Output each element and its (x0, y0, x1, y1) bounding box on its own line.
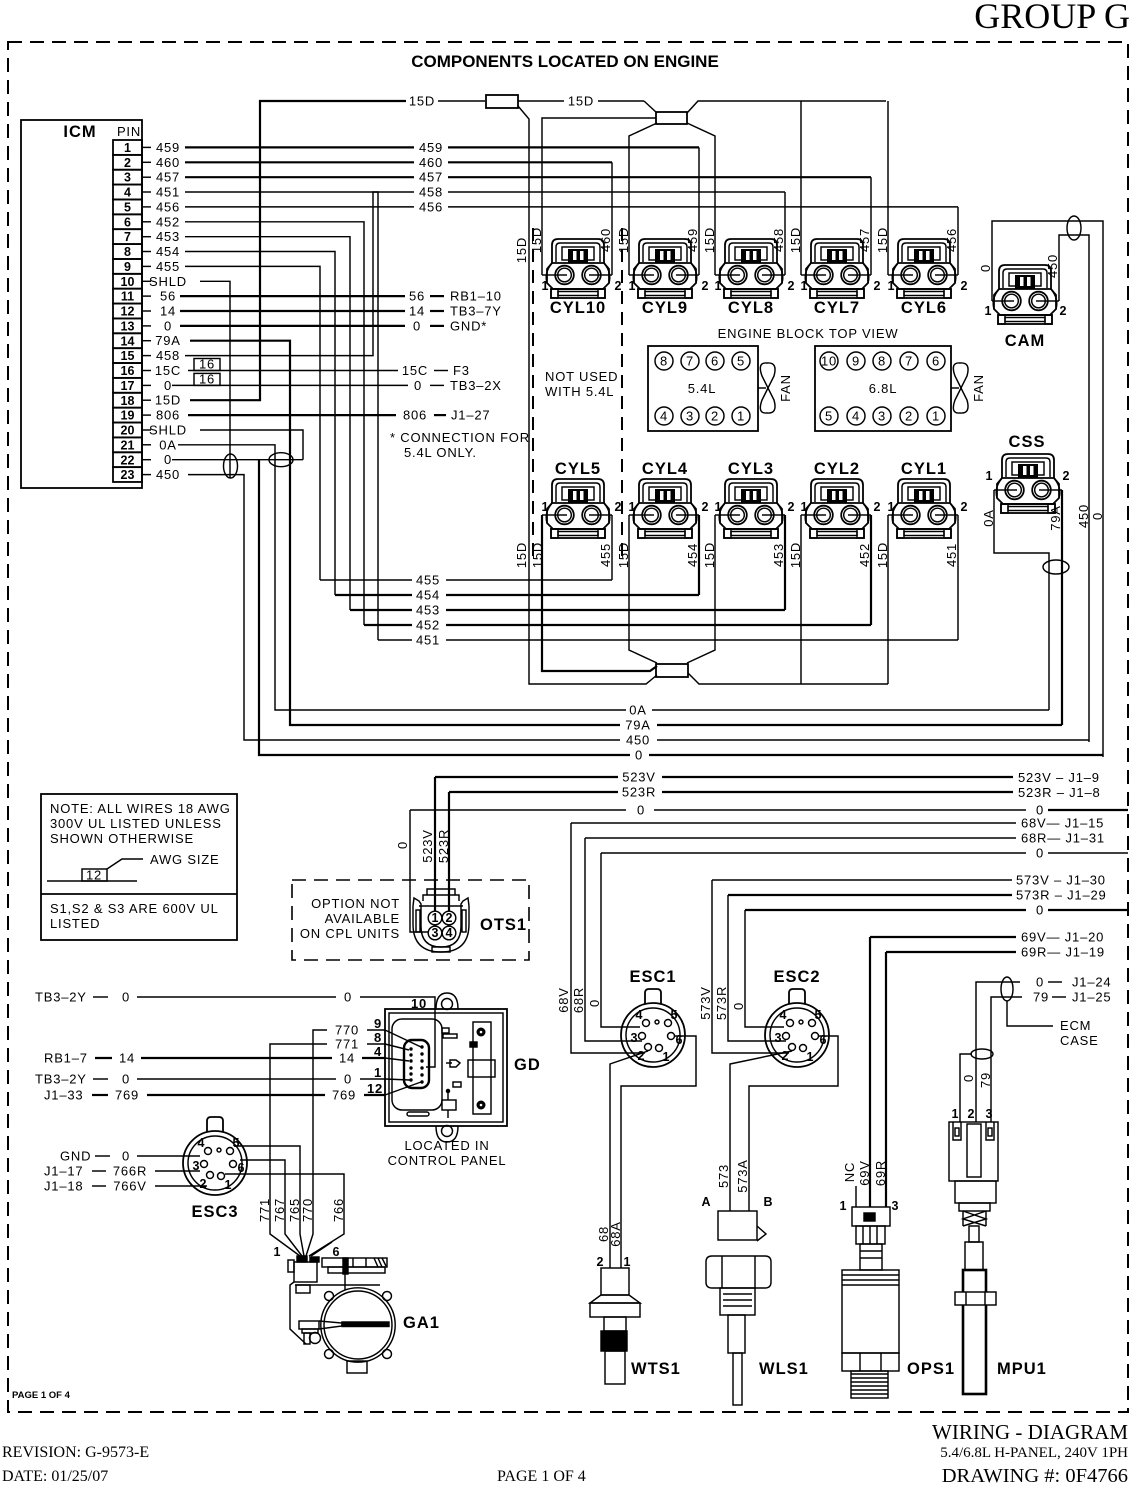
CYL9 pin 2 (689, 274, 699, 276)
wire 15D (ICM pin18) riser to top bus (190, 101, 406, 400)
svg-text:456: 456 (944, 228, 959, 252)
svg-text:1: 1 (432, 911, 439, 925)
ICM pin 18 box (113, 393, 142, 408)
svg-text:15D: 15D (788, 227, 803, 253)
svg-text:CAM: CAM (1005, 332, 1046, 350)
svg-text:5: 5 (737, 354, 745, 369)
svg-text:0: 0 (731, 1002, 746, 1010)
svg-text:CYL5: CYL5 (555, 460, 601, 478)
CYL3 pin 2 (775, 514, 785, 516)
ICM pin 19 box (113, 408, 142, 423)
svg-text:WITH 5.4L: WITH 5.4L (545, 384, 614, 399)
wire 69V to OPS1 (869, 937, 871, 1207)
wire 68R bus (585, 837, 1016, 839)
svg-text:1: 1 (986, 469, 993, 483)
wire 457 (ICM pin3 to CYL7) (185, 176, 414, 178)
svg-text:CASE: CASE (1060, 1033, 1099, 1048)
svg-text:457: 457 (156, 170, 180, 185)
wire 79A from CSS pin2 (1061, 490, 1063, 725)
wire 79 to J1-25 (991, 997, 1022, 1122)
svg-text:523R – J1–8: 523R – J1–8 (1018, 785, 1101, 800)
CAM pin 2 (1049, 300, 1059, 302)
svg-text:9: 9 (852, 354, 860, 369)
svg-text:1: 1 (737, 409, 745, 424)
wire 573V to ESC2 (712, 880, 789, 1053)
svg-text:454: 454 (416, 588, 440, 603)
connector CYL1 (892, 479, 956, 538)
wire 0 (ICM pin17) to TB3-2X with AWG 16 box (172, 384, 408, 386)
wire 56 (ICM pin 11) to RB1&#8211;10 (180, 295, 405, 297)
svg-text:1: 1 (542, 279, 549, 293)
svg-text:16: 16 (121, 364, 135, 378)
wire 457 drop to CYL7 pin2 (870, 177, 872, 275)
svg-text:455: 455 (416, 573, 440, 588)
svg-text:PIN: PIN (117, 124, 141, 139)
svg-text:8: 8 (124, 245, 131, 259)
wire 15D to CYL7 pin1 (800, 101, 802, 275)
wire 523V to OTS1 pin1 (434, 777, 436, 911)
wire 806 (ICM pin19) to J1-27 (188, 414, 396, 416)
svg-text:3: 3 (892, 1199, 899, 1213)
wire 15D right collector bus (688, 673, 888, 684)
svg-text:LOCATED IN: LOCATED IN (404, 1138, 489, 1153)
svg-text:6.8L: 6.8L (869, 381, 898, 396)
ICM pin 17 box (113, 378, 142, 393)
CYL7 pin 2 (861, 274, 871, 276)
splice S1 (15D) (486, 95, 518, 108)
AWG size example (47, 880, 137, 882)
ICM pin 22 wire label 0 (142, 459, 151, 461)
svg-text:2: 2 (702, 279, 709, 293)
wire 573A from ESC2 pin6 to WLS1 B (749, 1036, 838, 1211)
wire 15D second label (518, 100, 564, 102)
wire fan-out into GA1 connector (270, 1225, 300, 1256)
svg-text:CYL6: CYL6 (901, 299, 947, 317)
svg-text:2: 2 (615, 500, 622, 514)
svg-text:450: 450 (1045, 254, 1060, 278)
cylinder 4 (6.8L bottom) (847, 407, 865, 425)
svg-text:770: 770 (335, 1023, 359, 1038)
svg-text:450: 450 (156, 467, 180, 482)
svg-text:0A: 0A (629, 703, 647, 718)
ICM pin 9 wire label 455 (142, 265, 151, 267)
connector CSS (996, 454, 1060, 513)
svg-text:3: 3 (878, 409, 886, 424)
svg-text:573: 573 (716, 1164, 731, 1188)
svg-text:5: 5 (124, 201, 131, 215)
wire 452 drop from CYL2 pin2 (870, 515, 872, 625)
wire NC stub at OPS1 (855, 1186, 857, 1207)
svg-text:0: 0 (961, 1074, 976, 1082)
svg-text:3: 3 (686, 409, 694, 424)
wire 453 riser (pin7) (185, 237, 350, 610)
svg-text:2: 2 (1063, 469, 1070, 483)
svg-text:79: 79 (978, 1072, 993, 1088)
wire 450 from CAM pin2 (1059, 235, 1089, 742)
svg-text:5.4L ONLY.: 5.4L ONLY. (404, 445, 477, 460)
svg-text:69V: 69V (857, 1160, 872, 1186)
svg-text:NOT USED: NOT USED (545, 369, 618, 384)
ICM pin 18 wire label 15D (142, 399, 151, 401)
wire 456 (ICM pin5 to CYL6) (185, 206, 414, 208)
cylinder 1 (5.4L bottom) (732, 407, 750, 425)
svg-text:ICM: ICM (63, 123, 96, 141)
svg-text:1: 1 (715, 500, 722, 514)
svg-text:459: 459 (156, 140, 180, 155)
wire 15D to CYL6 pin1 (887, 101, 889, 275)
svg-text:452: 452 (857, 543, 872, 567)
svg-text:452: 452 (156, 214, 180, 229)
svg-text:J1–17: J1–17 (44, 1164, 83, 1179)
svg-text:ECM: ECM (1060, 1018, 1091, 1033)
svg-text:573R – J1–29: 573R – J1–29 (1016, 888, 1107, 903)
wire 770 to GD pin9 (313, 1030, 327, 1225)
wire 523R to OTS1 pin2 (448, 792, 450, 911)
svg-text:GA1: GA1 (403, 1314, 440, 1332)
CAM pin 1 (992, 300, 1001, 302)
svg-text:456: 456 (419, 199, 443, 214)
svg-text:TB3–2X: TB3–2X (450, 378, 502, 393)
wire 451 bus (378, 639, 412, 641)
wire 455 riser (pin9) (185, 266, 320, 580)
svg-text:15C: 15C (155, 363, 181, 378)
ICM pin 7 wire label 453 (142, 236, 151, 238)
svg-text:7: 7 (124, 230, 131, 244)
svg-text:68V— J1–15: 68V— J1–15 (1021, 816, 1104, 831)
svg-text:3: 3 (986, 1107, 993, 1121)
svg-text:806: 806 (156, 408, 180, 423)
svg-text:15: 15 (121, 349, 135, 363)
svg-text:CYL2: CYL2 (814, 460, 860, 478)
CYL1 pin 1 (888, 514, 900, 516)
svg-text:CSS: CSS (1009, 433, 1046, 451)
svg-text:DATE: 01/25/07: DATE: 01/25/07 (2, 1468, 108, 1485)
note box (41, 794, 237, 940)
ICM pin 13 wire label 0 (142, 325, 151, 327)
connector ESC2 (765, 989, 829, 1067)
connector CYL2 (805, 479, 869, 538)
wire 452 riser (pin6) (185, 222, 364, 625)
svg-text:454: 454 (156, 244, 180, 259)
CYL4 pin 2 (689, 514, 699, 516)
ICM pin 11 wire label 56 (142, 295, 151, 297)
ICM pin 20 box (113, 423, 142, 438)
svg-text:1: 1 (888, 500, 895, 514)
cylinder 8 (6.8L top) (873, 352, 891, 370)
wire 458 (ICM pin15 riser to CYL8) (185, 192, 414, 356)
svg-text:GND: GND (60, 1149, 91, 1164)
svg-text:11: 11 (121, 290, 134, 304)
svg-text:2: 2 (615, 279, 622, 293)
connector ESC1 (621, 989, 685, 1067)
wire 451 drop from CYL1 pin2 (957, 515, 959, 640)
svg-text:17: 17 (121, 379, 135, 393)
svg-text:19: 19 (121, 409, 135, 423)
svg-text:PAGE 1 OF 4: PAGE 1 OF 4 (12, 1390, 71, 1401)
wire 15D to CYL10 pin1 (542, 118, 656, 275)
svg-text:23: 23 (121, 468, 135, 482)
svg-text:1: 1 (629, 500, 636, 514)
CYL5 pin 1 (542, 514, 554, 516)
svg-text:0: 0 (122, 1149, 130, 1164)
svg-text:14: 14 (409, 304, 425, 319)
svg-text:10: 10 (121, 275, 135, 289)
svg-text:NOTE: ALL WIRES 18 AWG: NOTE: ALL WIRES 18 AWG (50, 801, 231, 816)
svg-text:7: 7 (686, 354, 694, 369)
svg-text:OPS1: OPS1 (907, 1360, 955, 1378)
ICM pin 21 wire label 0A (142, 444, 151, 446)
svg-text:455: 455 (598, 543, 613, 567)
ICM pin 20 wire label SHLD (142, 429, 151, 431)
ICM pin 16 box (113, 363, 142, 378)
ICM pin 17 wire label 0 (142, 384, 151, 386)
wire SHLD (ICM pin20) (200, 430, 303, 460)
svg-text:4: 4 (660, 409, 668, 424)
wire 68V bus (571, 822, 1016, 824)
svg-text:455: 455 (156, 259, 180, 274)
svg-text:CYL9: CYL9 (642, 299, 688, 317)
ICM pin 8 wire label 454 (142, 251, 151, 253)
svg-text:456: 456 (156, 199, 180, 214)
wire 573 from ESC2 pin2 to WLS1 A (730, 1051, 792, 1211)
svg-text:0: 0 (1090, 512, 1105, 520)
svg-text:457: 457 (419, 170, 443, 185)
wire SHLD pin10 drain (200, 281, 230, 478)
svg-text:ESC1: ESC1 (629, 968, 676, 986)
CYL7 pin 1 (801, 274, 813, 276)
connector OTS1 (413, 889, 469, 952)
wire ECM CASE drain (1007, 1001, 1053, 1026)
svg-text:FAN: FAN (778, 374, 793, 402)
connector CYL8 (719, 239, 783, 298)
svg-text:68R: 68R (571, 987, 586, 1013)
wire 573R to ESC2 (728, 895, 786, 1041)
svg-text:15D: 15D (155, 393, 181, 408)
svg-text:6: 6 (333, 1245, 340, 1259)
wire 767 from ESC3 pin6 (240, 1160, 285, 1225)
svg-text:14: 14 (119, 1051, 135, 1066)
svg-text:15D: 15D (514, 542, 529, 568)
wire 460 (ICM pin2 to CYL10) (185, 161, 414, 163)
ICM pin 3 box (113, 170, 142, 185)
cylinder 8 (5.4L top) (655, 352, 673, 370)
shield oval on pin20/22 pair (269, 453, 293, 467)
svg-text:OPTION NOT: OPTION NOT (311, 896, 400, 911)
svg-text:2: 2 (446, 911, 453, 925)
svg-text:458: 458 (419, 185, 443, 200)
svg-text:REVISION: G-9573-E: REVISION: G-9573-E (2, 1444, 149, 1461)
svg-text:OTS1: OTS1 (480, 916, 527, 934)
CYL8 pin 2 (775, 274, 785, 276)
wire 69R bus (886, 951, 1016, 953)
svg-text:GND*: GND* (450, 318, 487, 333)
svg-text:1: 1 (888, 279, 895, 293)
svg-text:RB1–7: RB1–7 (44, 1051, 88, 1066)
svg-text:WTS1: WTS1 (631, 1360, 681, 1378)
svg-text:J1–25: J1–25 (1072, 990, 1111, 1005)
svg-text:79A: 79A (155, 333, 181, 348)
svg-text:6: 6 (711, 354, 719, 369)
cylinder 5 (5.4L top) (732, 352, 750, 370)
svg-text:454: 454 (685, 543, 700, 567)
svg-text:14: 14 (121, 334, 135, 348)
svg-text:1: 1 (801, 279, 808, 293)
wire 15D drop from CYL3 pin1 (687, 515, 715, 663)
svg-text:0: 0 (344, 1072, 352, 1087)
shield oval on CAM pair (1067, 216, 1081, 240)
wire 69V bus (870, 936, 1016, 938)
svg-text:21: 21 (121, 438, 135, 452)
svg-text:573V – J1–30: 573V – J1–30 (1016, 873, 1106, 888)
wire 0 to OTS1 pin3 (410, 810, 428, 932)
wire 0 to ESC1 (601, 853, 640, 1027)
svg-text:4: 4 (124, 186, 131, 200)
svg-text:460: 460 (156, 155, 180, 170)
svg-text:20: 20 (121, 424, 135, 438)
svg-text:B: B (763, 1195, 772, 1209)
wire 459 drop to CYL9 pin2 (698, 147, 700, 275)
wire 15D drop from CYL4 pin1 (629, 515, 657, 663)
svg-text:16: 16 (199, 357, 215, 372)
wire 766 from ESC3 pin1 (225, 1174, 344, 1225)
splice S2 (15D distribution) (644, 101, 657, 113)
ICM pin 12 box (113, 304, 142, 319)
svg-text:79A: 79A (1048, 505, 1063, 531)
CYL6 pin 1 (888, 274, 900, 276)
svg-text:12: 12 (86, 868, 102, 883)
connector ESC3 (183, 1117, 247, 1195)
svg-text:SHLD: SHLD (149, 423, 187, 438)
svg-text:4: 4 (446, 926, 453, 940)
svg-text:* CONNECTION FOR: * CONNECTION FOR (390, 430, 530, 445)
svg-text:CYL1: CYL1 (901, 460, 947, 478)
svg-text:459: 459 (419, 140, 443, 155)
svg-text:CYL4: CYL4 (642, 460, 688, 478)
svg-text:523R: 523R (622, 785, 656, 800)
svg-text:CYL8: CYL8 (728, 299, 774, 317)
CYL10 pin 2 (602, 274, 612, 276)
wire 455 drop from CYL5 pin2 (611, 515, 613, 580)
wire 0 to J1-24 (976, 982, 1020, 1122)
svg-text:1: 1 (801, 500, 808, 514)
ICM pin 6 wire label 452 (142, 221, 151, 223)
svg-text:450: 450 (1076, 504, 1091, 528)
svg-text:13: 13 (121, 319, 135, 333)
fan symbol 6.8L (951, 387, 959, 389)
svg-text:2: 2 (874, 500, 881, 514)
svg-text:0: 0 (414, 378, 422, 393)
svg-text:12: 12 (121, 305, 135, 319)
svg-text:457: 457 (857, 228, 872, 252)
wire 456 drop to CYL6 pin2 (957, 207, 959, 275)
CYL5 pin 2 (602, 514, 612, 516)
CYL2 pin 2 (861, 514, 871, 516)
CYL1 pin 2 (948, 514, 958, 516)
svg-text:PAGE 1 OF 4: PAGE 1 OF 4 (497, 1468, 586, 1485)
svg-text:RB1–10: RB1–10 (450, 289, 502, 304)
cylinder 4 (5.4L bottom) (655, 407, 673, 425)
svg-text:2: 2 (788, 500, 795, 514)
svg-text:573V: 573V (698, 986, 713, 1020)
svg-text:4: 4 (374, 1044, 382, 1059)
ICM pin 2 box (113, 155, 142, 170)
CSS pin 2 (1052, 489, 1062, 491)
svg-text:1: 1 (985, 304, 992, 318)
wire 15D drop from CYL2 pin1 (800, 515, 802, 684)
ICM pin 15 box (113, 348, 142, 363)
shield oval on MPU1 pair (971, 1049, 993, 1059)
ICM pin 9 box (113, 259, 142, 274)
OTS1 pin 1 (428, 911, 442, 925)
OTS1 pin 2 (442, 911, 456, 925)
svg-text:0: 0 (122, 1072, 130, 1087)
CYL8 pin 1 (715, 274, 727, 276)
wire 15D drop from CYL1 pin1 (887, 515, 889, 684)
connector CYL4 (633, 479, 697, 538)
cylinder 1 (6.8L bottom) (927, 407, 945, 425)
connector ICM (21, 120, 142, 488)
svg-text:ON CPL UNITS: ON CPL UNITS (300, 926, 400, 941)
ICM pin 6 box (113, 214, 142, 229)
svg-text:769: 769 (115, 1088, 139, 1103)
ICM pin 23 box (113, 467, 142, 482)
svg-text:6: 6 (124, 215, 131, 229)
svg-text:CYL3: CYL3 (728, 460, 774, 478)
svg-text:2: 2 (1060, 304, 1067, 318)
svg-text:10: 10 (821, 354, 837, 369)
ICM pin 11 box (113, 289, 142, 304)
ICM pin 21 box (113, 437, 142, 452)
connector CYL9 (633, 239, 697, 298)
svg-text:458: 458 (156, 348, 180, 363)
fan symbol 5.4L (758, 387, 766, 389)
wire 523V bus (435, 776, 618, 778)
svg-text:523R: 523R (436, 829, 451, 863)
wire 15D to CYL9 pin1 (629, 123, 657, 275)
wire 0 from CAM pin1 (992, 221, 1103, 757)
wire 450 (ICM pin23) (188, 475, 620, 740)
svg-text:1: 1 (124, 141, 131, 155)
CYL9 pin 1 (629, 274, 641, 276)
wire 0 bus (OTS1) (410, 809, 626, 811)
svg-text:TB3–2Y: TB3–2Y (35, 990, 87, 1005)
svg-text:TB3–7Y: TB3–7Y (450, 304, 502, 319)
ICM pin 10 box (113, 274, 142, 289)
wire 454 riser (pin8) (185, 252, 335, 596)
engine block 5.4L (648, 346, 758, 431)
ICM pin 16 wire label 15C (142, 370, 151, 372)
ICM pin 13 box (113, 318, 142, 333)
svg-text:AVAILABLE: AVAILABLE (325, 911, 400, 926)
svg-text:452: 452 (416, 618, 440, 633)
svg-text:0: 0 (1036, 846, 1044, 861)
svg-text:J1–18: J1–18 (44, 1179, 83, 1194)
svg-text:0: 0 (344, 990, 352, 1005)
svg-text:523V: 523V (420, 829, 435, 863)
svg-text:15C: 15C (402, 363, 428, 378)
svg-text:0: 0 (164, 378, 172, 393)
svg-text:5: 5 (825, 409, 833, 424)
svg-text:523V – J1–9: 523V – J1–9 (1018, 770, 1100, 785)
svg-text:CYL10: CYL10 (550, 299, 606, 317)
cylinder 9 (6.8L top) (847, 352, 865, 370)
svg-text:16: 16 (199, 371, 215, 386)
svg-text:0A: 0A (159, 437, 177, 452)
svg-text:56: 56 (409, 289, 425, 304)
svg-text:2: 2 (124, 156, 131, 170)
svg-text:ESC2: ESC2 (773, 968, 820, 986)
dashed box OPTION NOT AVAILABLE (292, 880, 529, 960)
